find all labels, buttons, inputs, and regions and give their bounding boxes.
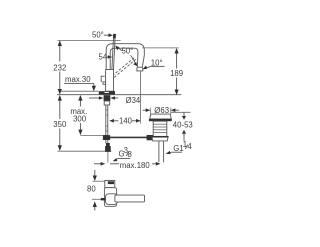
svg-text:Ø34: Ø34	[126, 96, 141, 105]
svg-text:max.180: max.180	[120, 161, 151, 170]
G3/8 hose fitting	[106, 143, 110, 146]
threaded rod / hoses	[106, 105, 108, 143]
pop-up rod	[106, 136, 149, 138]
dimension 80	[87, 170, 97, 211]
label 10 degrees with leader	[143, 58, 165, 69]
svg-text:50°: 50°	[92, 31, 104, 40]
spout outer contour	[106, 44, 144, 70]
waste tailpipe	[159, 141, 164, 162]
plan view pull rod	[92, 198, 101, 200]
label 50 degrees inner with two arrows	[115, 45, 137, 66]
plan view body	[104, 188, 116, 207]
plan view lever bar	[115, 195, 145, 202]
extension line escutcheon top (350 ref)	[59, 90, 99, 92]
dimension 40-53	[171, 112, 193, 141]
mounting shank hatched	[104, 95, 111, 101]
lever pin	[112, 34, 116, 70]
rod right connector	[147, 135, 154, 140]
dimension 232 line	[58, 40, 62, 94]
rod left connector	[103, 135, 110, 140]
escutcheon base	[99, 91, 115, 94]
svg-text:189: 189	[170, 69, 183, 78]
escutcheon highlight	[105, 92, 109, 93]
svg-text:140: 140	[119, 116, 133, 125]
spout inner contour	[110, 48, 138, 69]
spout outlet extension line down	[139, 71, 141, 124]
svg-text:300: 300	[73, 115, 87, 124]
dimension 140	[109, 116, 140, 125]
svg-text:350: 350	[53, 120, 67, 129]
svg-text:50°: 50°	[122, 47, 134, 56]
plan view: 80 top extension	[93, 180, 109, 182]
thread lines	[153, 124, 167, 132]
extension line max300 bottom ref	[80, 134, 108, 136]
plan view spout section	[105, 181, 115, 188]
svg-text:40-53: 40-53	[173, 120, 193, 129]
spout outlet tip	[137, 66, 142, 68]
lever dashed open position	[112, 57, 136, 77]
label G1 1/4	[166, 140, 193, 154]
label max.30	[64, 75, 104, 91]
waste threaded body	[153, 121, 167, 136]
label 54 with arrow	[99, 53, 113, 62]
plan view pull rod knob	[101, 198, 105, 200]
svg-text:8: 8	[128, 150, 132, 159]
plan view aerator dark band	[108, 181, 114, 184]
svg-text:232: 232	[53, 64, 66, 73]
deck line	[57, 94, 181, 96]
extension line top (232 ref)	[58, 39, 121, 41]
dimension Ø34	[89, 96, 141, 105]
plan view lever boss	[106, 194, 118, 205]
mounting bracket	[104, 101, 110, 105]
extension line 350 bottom ref	[58, 150, 112, 152]
body side tab	[103, 82, 106, 84]
label G3/8	[113, 146, 132, 161]
dimension 189	[142, 48, 183, 95]
dimension max300 line	[78, 95, 82, 135]
faucet body	[106, 70, 114, 92]
svg-text:4: 4	[187, 142, 192, 151]
dimension max.180	[94, 161, 160, 170]
svg-text:max.30: max.30	[65, 75, 91, 84]
fitting centerline	[107, 152, 109, 163]
dimension Ø63	[143, 106, 179, 115]
svg-text:80: 80	[87, 185, 96, 194]
svg-text:Ø63: Ø63	[154, 106, 169, 115]
label 50 degrees top	[92, 31, 113, 40]
spout mousseur	[137, 67, 143, 71]
flange dark band	[149, 119, 172, 121]
waste backnut	[152, 136, 168, 141]
pop-up waste flange	[150, 114, 172, 119]
dimension 350 line	[58, 95, 62, 151]
